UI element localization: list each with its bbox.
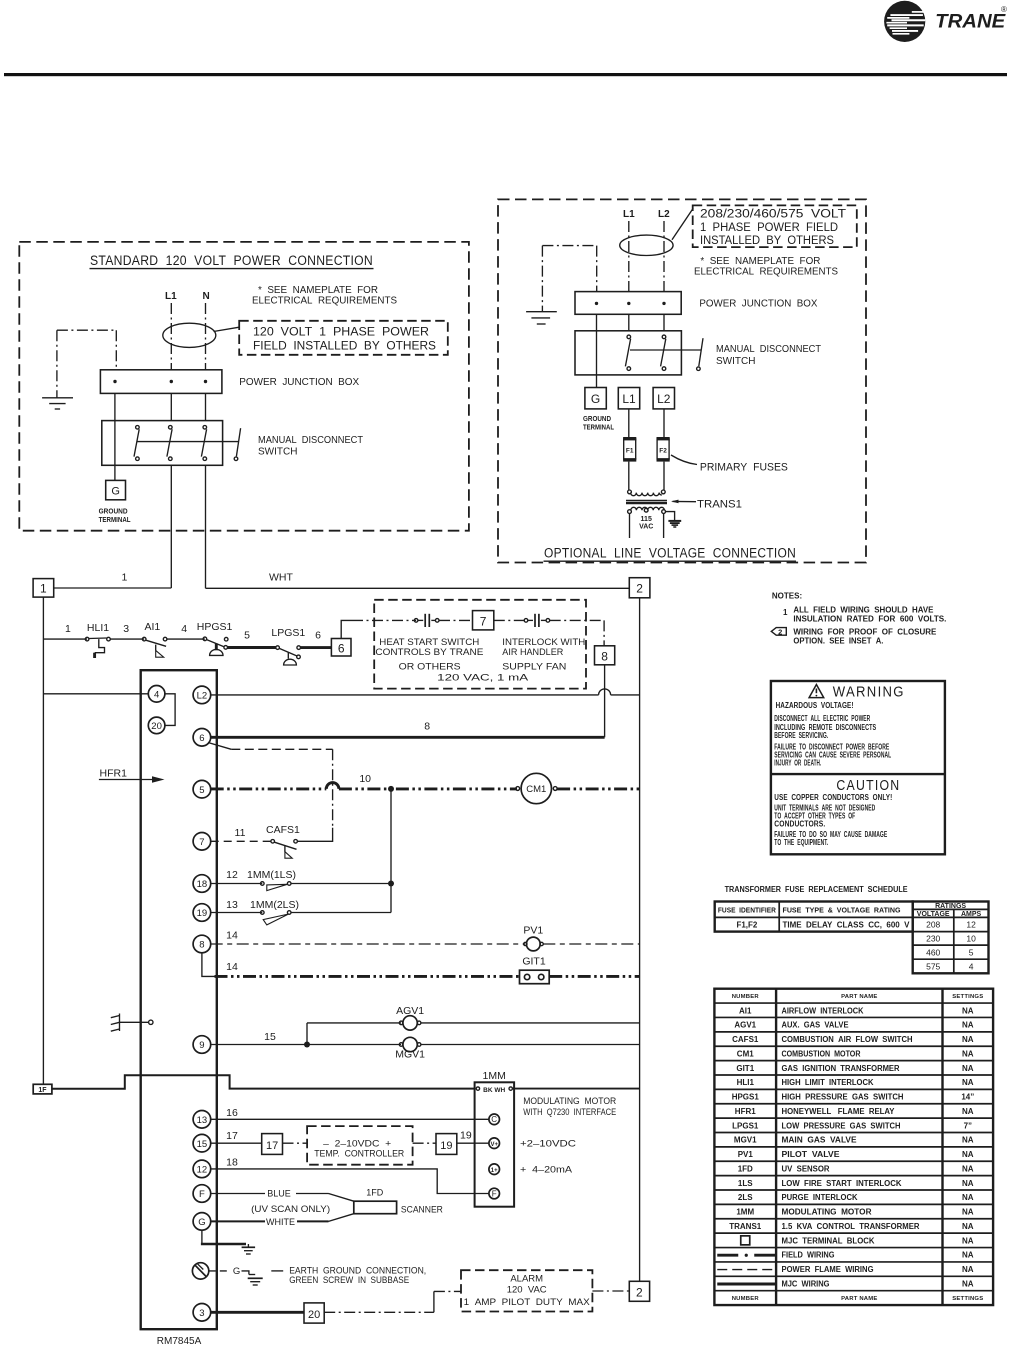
svg-text:1: 1: [121, 571, 127, 583]
svg-text:* SEE NAMEPLATE FOR: * SEE NAMEPLATE FOR: [700, 256, 820, 267]
svg-text:CAFS1: CAFS1: [266, 824, 300, 836]
svg-text:7: 7: [199, 837, 204, 848]
svg-text:2: 2: [778, 627, 782, 636]
svg-text:CAUTION: CAUTION: [836, 777, 900, 794]
svg-text:115: 115: [641, 516, 652, 523]
svg-text:USE COPPER CONDUCTORS ONLY!: USE COPPER CONDUCTORS ONLY!: [774, 793, 892, 802]
svg-text:GROUND: GROUND: [583, 416, 611, 423]
svg-text:1.5 KVA CONTROL TRANSFORMER: 1.5 KVA CONTROL TRANSFORMER: [782, 1222, 920, 1231]
svg-text:F1,F2: F1,F2: [736, 921, 757, 930]
svg-text:17: 17: [266, 1140, 278, 1152]
svg-text:14: 14: [226, 930, 238, 942]
svg-text:3: 3: [199, 1308, 204, 1319]
svg-text:208/230/460/575 VOLT: 208/230/460/575 VOLT: [700, 209, 846, 221]
svg-text:OR OTHERS: OR OTHERS: [399, 661, 461, 672]
svg-text:GIT1: GIT1: [736, 1064, 754, 1073]
svg-text:GAS IGNITION TRANSFORMER: GAS IGNITION TRANSFORMER: [782, 1064, 900, 1073]
svg-text:20: 20: [151, 721, 162, 732]
svg-text:L2: L2: [658, 209, 670, 220]
svg-text:7”: 7”: [964, 1121, 972, 1130]
svg-text:6: 6: [338, 641, 345, 655]
svg-text:12: 12: [966, 920, 976, 930]
svg-text:WHITE: WHITE: [266, 1217, 295, 1227]
svg-text:SCANNER: SCANNER: [401, 1204, 443, 1215]
svg-text:3: 3: [123, 623, 129, 635]
svg-text:5: 5: [244, 630, 250, 642]
svg-text:C: C: [491, 1115, 497, 1124]
svg-text:L1: L1: [165, 291, 177, 302]
svg-text:NA: NA: [962, 1064, 974, 1073]
svg-text:EARTH GROUND CONNECTION,: EARTH GROUND CONNECTION,: [289, 1265, 426, 1275]
svg-text:9: 9: [199, 1040, 204, 1051]
svg-text:NA: NA: [962, 1006, 974, 1015]
svg-text:LOW PRESSURE GAS SWITCH: LOW PRESSURE GAS SWITCH: [782, 1121, 901, 1130]
svg-text:TRANS1: TRANS1: [697, 499, 742, 511]
svg-text:INSULATION RATED FOR 600 V: INSULATION RATED FOR 600 VOLTS.: [793, 615, 946, 624]
svg-text:GIT1: GIT1: [522, 956, 545, 968]
svg-text:HFR1: HFR1: [100, 768, 128, 780]
svg-text:HEAT START SWITCH: HEAT START SWITCH: [379, 637, 479, 648]
svg-text:AIRFLOW INTERLOCK: AIRFLOW INTERLOCK: [782, 1006, 864, 1015]
svg-text:CAFS1: CAFS1: [732, 1035, 759, 1044]
svg-text:AI1: AI1: [145, 621, 161, 633]
svg-text:1 AMP PILOT DUTY MAX: 1 AMP PILOT DUTY MAX: [464, 1297, 591, 1308]
svg-text:TERMINAL: TERMINAL: [99, 517, 132, 524]
svg-text:PILOT VALVE: PILOT VALVE: [782, 1150, 841, 1159]
svg-text:SWITCH: SWITCH: [258, 446, 297, 457]
svg-text:1MM: 1MM: [736, 1208, 754, 1217]
svg-text:10: 10: [966, 934, 976, 944]
svg-text:L2: L2: [197, 691, 208, 702]
svg-text:12: 12: [197, 1165, 208, 1176]
svg-text:HIGH PRESSURE GAS SWITCH: HIGH PRESSURE GAS SWITCH: [782, 1093, 904, 1102]
svg-text:FIELD WIRING: FIELD WIRING: [782, 1251, 835, 1260]
svg-text:TERMINAL: TERMINAL: [583, 425, 615, 432]
svg-text:MGV1: MGV1: [395, 1049, 425, 1061]
svg-text:OPTION. SEE INSET A.: OPTION. SEE INSET A.: [793, 637, 883, 646]
svg-text:AIR HANDLER: AIR HANDLER: [502, 647, 563, 658]
svg-text:LPGS1: LPGS1: [732, 1121, 759, 1130]
svg-text:13: 13: [197, 1115, 208, 1126]
svg-text:PV1: PV1: [738, 1150, 754, 1159]
svg-text:POWER FLAME WIRING: POWER FLAME WIRING: [782, 1265, 874, 1274]
svg-text:PART NAME: PART NAME: [841, 994, 877, 1000]
svg-text:120 VOLT 1 PHASE POWER: 120 VOLT 1 PHASE POWER: [253, 327, 429, 339]
svg-text:POWER JUNCTION BOX: POWER JUNCTION BOX: [239, 377, 359, 388]
svg-text:1MM(1LS): 1MM(1LS): [247, 869, 296, 881]
svg-text:TRANS1: TRANS1: [729, 1222, 762, 1231]
svg-text:WARNING: WARNING: [833, 684, 905, 701]
svg-text:TO THE EQUIPMENT.: TO THE EQUIPMENT.: [774, 838, 828, 847]
svg-text:SETTINGS: SETTINGS: [952, 994, 983, 1000]
svg-text:19: 19: [197, 908, 208, 919]
svg-text:ELECTRICAL REQUIREMENTS: ELECTRICAL REQUIREMENTS: [252, 296, 397, 307]
svg-text:* SEE NAMEPLATE FOR: * SEE NAMEPLATE FOR: [258, 285, 378, 296]
svg-text:POWER JUNCTION BOX: POWER JUNCTION BOX: [699, 299, 817, 310]
svg-text:NUMBER: NUMBER: [732, 1296, 760, 1302]
svg-text:1: 1: [40, 582, 47, 596]
svg-text:14”: 14”: [961, 1093, 974, 1102]
svg-text:8: 8: [199, 940, 204, 951]
svg-text:ALARM: ALARM: [510, 1274, 543, 1285]
svg-text:1+: 1+: [491, 1168, 498, 1174]
svg-text:NA: NA: [962, 1021, 974, 1030]
svg-text:CM1: CM1: [737, 1049, 754, 1058]
svg-text:NA: NA: [962, 1236, 974, 1245]
svg-text:HONEYWELL FLAME RELAY: HONEYWELL FLAME RELAY: [782, 1107, 896, 1116]
svg-text:+2–10VDC: +2–10VDC: [520, 1139, 576, 1150]
svg-text:L1: L1: [623, 209, 635, 220]
svg-text:F: F: [199, 1189, 205, 1200]
svg-text:1: 1: [783, 608, 788, 617]
svg-text:NA: NA: [962, 1208, 974, 1217]
svg-text:SUPPLY FAN: SUPPLY FAN: [502, 661, 566, 672]
svg-text:OPTIONAL LINE VOLTAGE CONNE: OPTIONAL LINE VOLTAGE CONNECTION: [544, 546, 796, 561]
svg-text:HPGS1: HPGS1: [197, 621, 233, 633]
svg-text:FIELD INSTALLED BY OTHERS: FIELD INSTALLED BY OTHERS: [253, 341, 436, 353]
svg-text:NA: NA: [962, 1265, 974, 1274]
svg-text:NA: NA: [962, 1136, 974, 1145]
svg-text:1FD: 1FD: [366, 1187, 384, 1197]
svg-text:NA: NA: [962, 1164, 974, 1173]
svg-text:FUSE IDENTIFIER: FUSE IDENTIFIER: [718, 906, 777, 915]
svg-text:NA: NA: [962, 1107, 974, 1116]
svg-text:NA: NA: [962, 1222, 974, 1231]
svg-text:7: 7: [480, 615, 487, 629]
svg-text:PV1: PV1: [523, 924, 543, 936]
svg-text:NA: NA: [962, 1035, 974, 1044]
svg-text:FUSE TYPE & VOLTAGE RATING: FUSE TYPE & VOLTAGE RATING: [783, 906, 901, 915]
svg-text:MAIN GAS VALVE: MAIN GAS VALVE: [782, 1136, 858, 1145]
svg-text:HLI1: HLI1: [737, 1078, 755, 1087]
svg-text:®: ®: [1001, 5, 1007, 14]
svg-text:5: 5: [199, 785, 204, 796]
svg-text:NA: NA: [962, 1251, 974, 1260]
svg-text:NUMBER: NUMBER: [732, 994, 760, 1000]
svg-text:L2: L2: [657, 392, 671, 406]
svg-text:GROUND: GROUND: [99, 508, 128, 515]
svg-text:N: N: [203, 291, 210, 302]
svg-text:6: 6: [199, 733, 204, 744]
svg-text:MJC WIRING: MJC WIRING: [782, 1279, 830, 1288]
svg-text:4: 4: [181, 623, 187, 635]
svg-text:4: 4: [154, 689, 159, 700]
svg-text:F2: F2: [659, 447, 667, 454]
svg-text:HIGH LIMIT INTERLOCK: HIGH LIMIT INTERLOCK: [782, 1078, 874, 1087]
svg-text:10: 10: [359, 773, 371, 785]
svg-text:STANDARD 120 VOLT POWER CO: STANDARD 120 VOLT POWER CONNECTION: [90, 253, 373, 268]
svg-text:11: 11: [235, 827, 246, 839]
svg-text:(UV SCAN ONLY): (UV SCAN ONLY): [251, 1204, 330, 1214]
svg-text:NA: NA: [962, 1193, 974, 1202]
svg-text:PRIMARY FUSES: PRIMARY FUSES: [700, 462, 788, 474]
svg-text:5: 5: [969, 948, 974, 958]
svg-text:CONTROLS BY TRANE: CONTROLS BY TRANE: [375, 647, 483, 658]
svg-text:2: 2: [636, 1285, 643, 1299]
svg-text:V+: V+: [490, 1142, 498, 1148]
svg-text:1FD: 1FD: [738, 1164, 753, 1173]
svg-text:PURGE INTERLOCK: PURGE INTERLOCK: [782, 1193, 858, 1202]
svg-text:1LS: 1LS: [738, 1179, 753, 1188]
svg-text:G: G: [233, 1266, 240, 1277]
svg-text:TEMP. CONTROLLER: TEMP. CONTROLLER: [314, 1148, 404, 1159]
svg-text:460: 460: [926, 948, 940, 958]
svg-text:NA: NA: [962, 1049, 974, 1058]
svg-text:NA: NA: [962, 1078, 974, 1087]
svg-text:COMBUSTION MOTOR: COMBUSTION MOTOR: [782, 1049, 861, 1058]
svg-text:CONDUCTORS.: CONDUCTORS.: [774, 819, 825, 828]
svg-text:F: F: [492, 1189, 497, 1198]
svg-text:SETTINGS: SETTINGS: [952, 1296, 983, 1302]
svg-text:15: 15: [264, 1031, 276, 1043]
svg-text:15: 15: [197, 1139, 208, 1150]
svg-text:WITH Q7230 INTERFACE: WITH Q7230 INTERFACE: [523, 1107, 616, 1118]
svg-text:HFR1: HFR1: [735, 1107, 756, 1116]
svg-text:BLUE: BLUE: [267, 1189, 291, 1199]
svg-text:NA: NA: [962, 1179, 974, 1188]
svg-text:14: 14: [226, 961, 238, 973]
svg-text:TRANSFORMER FUSE REPLACEMENT: TRANSFORMER FUSE REPLACEMENT SCHEDULE: [725, 885, 909, 894]
svg-text:120 VAC: 120 VAC: [507, 1284, 547, 1295]
svg-text:20: 20: [308, 1309, 320, 1321]
svg-text:MODULATING MOTOR: MODULATING MOTOR: [782, 1208, 872, 1217]
svg-text:12: 12: [226, 869, 238, 881]
svg-text:COMBUSTION AIR FLOW SWITCH: COMBUSTION AIR FLOW SWITCH: [782, 1035, 913, 1044]
svg-text:INSTALLED BY OTHERS: INSTALLED BY OTHERS: [700, 235, 834, 247]
svg-text:G: G: [111, 486, 120, 498]
svg-text:CM1: CM1: [526, 784, 546, 795]
svg-text:230: 230: [926, 934, 940, 944]
svg-text:18: 18: [226, 1157, 238, 1169]
svg-text:PART NAME: PART NAME: [841, 1296, 877, 1302]
svg-text:8: 8: [601, 649, 608, 663]
svg-text:4: 4: [969, 961, 974, 971]
svg-text:208: 208: [926, 920, 940, 930]
svg-text:ALL FIELD WIRING SHOULD HA: ALL FIELD WIRING SHOULD HAVE: [793, 605, 934, 614]
svg-text:INTERLOCK WITH: INTERLOCK WITH: [502, 637, 585, 648]
svg-text:G: G: [591, 392, 600, 406]
svg-text:NA: NA: [962, 1279, 974, 1288]
svg-text:1 PHASE POWER FIELD: 1 PHASE POWER FIELD: [700, 222, 838, 234]
svg-text:MGV1: MGV1: [734, 1136, 757, 1145]
svg-text:HAZARDOUS VOLTAGE!: HAZARDOUS VOLTAGE!: [776, 701, 854, 710]
svg-text:DISCONNECT ALL ELECTRIC POW: DISCONNECT ALL ELECTRIC POWER: [774, 714, 870, 723]
svg-text:WIRING FOR PROOF OF CLOSUR: WIRING FOR PROOF OF CLOSURE: [793, 627, 937, 636]
svg-text:UV SENSOR: UV SENSOR: [782, 1164, 830, 1173]
svg-text:TRANE: TRANE: [935, 11, 1006, 32]
svg-text:VAC: VAC: [639, 524, 653, 531]
svg-text:1F: 1F: [38, 1087, 47, 1094]
svg-text:HPGS1: HPGS1: [732, 1093, 760, 1102]
svg-text:13: 13: [226, 899, 238, 911]
svg-text:1MM: 1MM: [483, 1070, 506, 1082]
svg-text:G: G: [198, 1217, 205, 1228]
svg-text:L1: L1: [622, 392, 636, 406]
svg-text:VOLTAGE: VOLTAGE: [917, 911, 950, 918]
svg-text:6: 6: [315, 630, 321, 642]
svg-text:120 VAC, 1 mA: 120 VAC, 1 mA: [437, 672, 529, 683]
svg-text:AUX. GAS VALVE: AUX. GAS VALVE: [782, 1021, 850, 1030]
svg-text:+ 4–20mA: + 4–20mA: [520, 1165, 573, 1176]
svg-text:LPGS1: LPGS1: [271, 627, 305, 639]
svg-text:GREEN SCREW IN SUBBASE: GREEN SCREW IN SUBBASE: [289, 1275, 409, 1285]
svg-text:19: 19: [440, 1140, 452, 1152]
svg-text:575: 575: [926, 961, 940, 971]
svg-text:MANUAL DISCONNECT: MANUAL DISCONNECT: [716, 344, 821, 355]
svg-text:BK WH: BK WH: [483, 1087, 505, 1094]
svg-text:1MM(2LS): 1MM(2LS): [250, 899, 299, 911]
svg-text:WHT: WHT: [269, 571, 293, 583]
svg-text:SWITCH: SWITCH: [716, 356, 755, 367]
svg-text:2: 2: [636, 582, 643, 596]
svg-text:16: 16: [226, 1107, 238, 1119]
svg-text:INJURY OR DEATH.: INJURY OR DEATH.: [774, 759, 821, 768]
svg-text:1: 1: [65, 623, 71, 635]
svg-text:18: 18: [197, 879, 208, 890]
svg-text:ELECTRICAL REQUIREMENTS: ELECTRICAL REQUIREMENTS: [694, 267, 838, 278]
svg-text:BEFORE SERVICING.: BEFORE SERVICING.: [774, 731, 828, 740]
svg-text:HLI1: HLI1: [87, 622, 109, 634]
svg-text:TIME DELAY CLASS CC, 600: TIME DELAY CLASS CC, 600 V: [783, 921, 911, 930]
svg-text:19: 19: [460, 1130, 472, 1142]
svg-text:F1: F1: [626, 447, 634, 454]
svg-text:RATINGS: RATINGS: [935, 903, 966, 910]
svg-text:8: 8: [424, 721, 430, 733]
svg-text:MODULATING MOTOR: MODULATING MOTOR: [523, 1096, 616, 1107]
svg-text:2LS: 2LS: [738, 1193, 753, 1202]
svg-text:RM7845A: RM7845A: [157, 1336, 202, 1347]
svg-text:NOTES:: NOTES:: [772, 592, 802, 601]
svg-text:NA: NA: [962, 1150, 974, 1159]
svg-text:LOW FIRE START INTERLOCK: LOW FIRE START INTERLOCK: [782, 1179, 902, 1188]
svg-text:MANUAL DISCONNECT: MANUAL DISCONNECT: [258, 435, 363, 446]
svg-text:17: 17: [226, 1130, 238, 1142]
svg-text:AGV1: AGV1: [734, 1021, 756, 1030]
svg-text:AMPS: AMPS: [961, 911, 982, 918]
svg-text:AI1: AI1: [739, 1006, 752, 1015]
svg-text:MJC TERMINAL BLOCK: MJC TERMINAL BLOCK: [782, 1236, 875, 1245]
